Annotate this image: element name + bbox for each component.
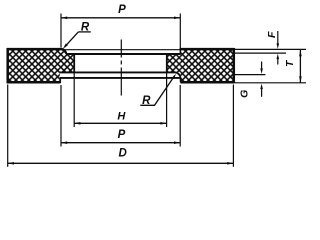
svg-text:P: P [118, 129, 126, 141]
svg-text:H: H [117, 110, 126, 122]
svg-text:G: G [238, 90, 250, 98]
svg-text:P: P [118, 4, 126, 16]
svg-text:T: T [284, 59, 296, 67]
svg-text:D: D [118, 148, 126, 160]
svg-text:F: F [266, 31, 278, 38]
